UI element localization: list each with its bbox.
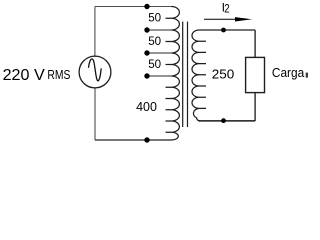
node dot tap 2 — [144, 50, 149, 55]
tap wire at 100 — [147, 52, 172, 54]
svg-text:220 V: 220 V — [3, 67, 45, 84]
tap wire at 50 — [147, 29, 172, 31]
transformer primary winding (tapped 50/50/50/400) — [166, 7, 180, 141]
transformer core line 2 — [187, 22, 189, 127]
wire : right vertical below load — [254, 93, 256, 121]
transformer core line 1 — [182, 22, 184, 127]
node dot secondary top — [221, 28, 226, 33]
svg-text:50: 50 — [148, 57, 161, 71]
svg-text:50: 50 — [148, 10, 161, 24]
node dot top tap — [144, 4, 149, 9]
wire : secondary bottom to load — [199, 120, 256, 122]
svg-text:RMS: RMS — [47, 67, 70, 82]
svg-text:250: 250 — [212, 66, 235, 81]
svg-text:50: 50 — [148, 34, 161, 48]
transformer secondary winding — [192, 30, 206, 121]
node dot secondary bottom — [221, 118, 226, 123]
svg-text:Carga: Carga — [272, 65, 305, 80]
wire : right vertical above load — [254, 30, 256, 57]
voltage source V1 (AC) — [79, 56, 111, 88]
load resistor (Carga) — [246, 57, 265, 92]
node dot bottom tap — [144, 137, 149, 142]
wire : secondary top to load — [199, 29, 255, 31]
svg-text:2: 2 — [224, 1, 229, 15]
wire : bottom rail from source to primary bottom — [95, 139, 168, 141]
tap wire at 150 — [147, 75, 172, 77]
wire : left vertical above source — [94, 7, 96, 57]
node dot tap 3 — [144, 73, 149, 78]
svg-text:400: 400 — [136, 100, 157, 114]
wire : left vertical below source — [94, 88, 96, 141]
node dot tap 1 — [144, 27, 149, 32]
partial letter cut at right edge — [306, 73, 308, 78]
wire : top rail from source to primary top — [95, 6, 172, 8]
current arrow I2 — [204, 18, 240, 20]
